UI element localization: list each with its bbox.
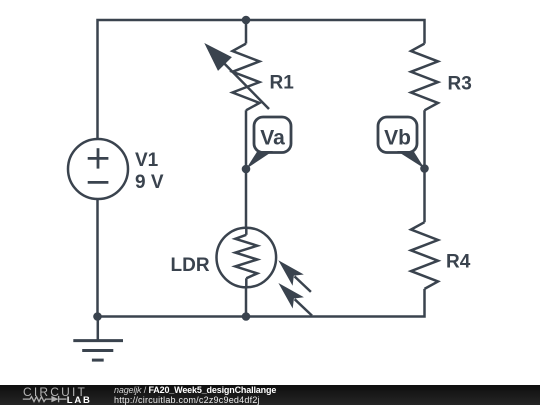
svg-text:R1: R1	[270, 73, 295, 94]
svg-text:LDR: LDR	[171, 255, 210, 276]
svg-text:Vb: Vb	[384, 127, 411, 150]
svg-text:LAB: LAB	[67, 395, 92, 405]
svg-text:R4: R4	[446, 252, 471, 273]
svg-text:R3: R3	[448, 74, 472, 95]
svg-text:9 V: 9 V	[135, 172, 164, 193]
svg-text:Va: Va	[260, 127, 285, 150]
svg-text:V1: V1	[135, 150, 159, 171]
